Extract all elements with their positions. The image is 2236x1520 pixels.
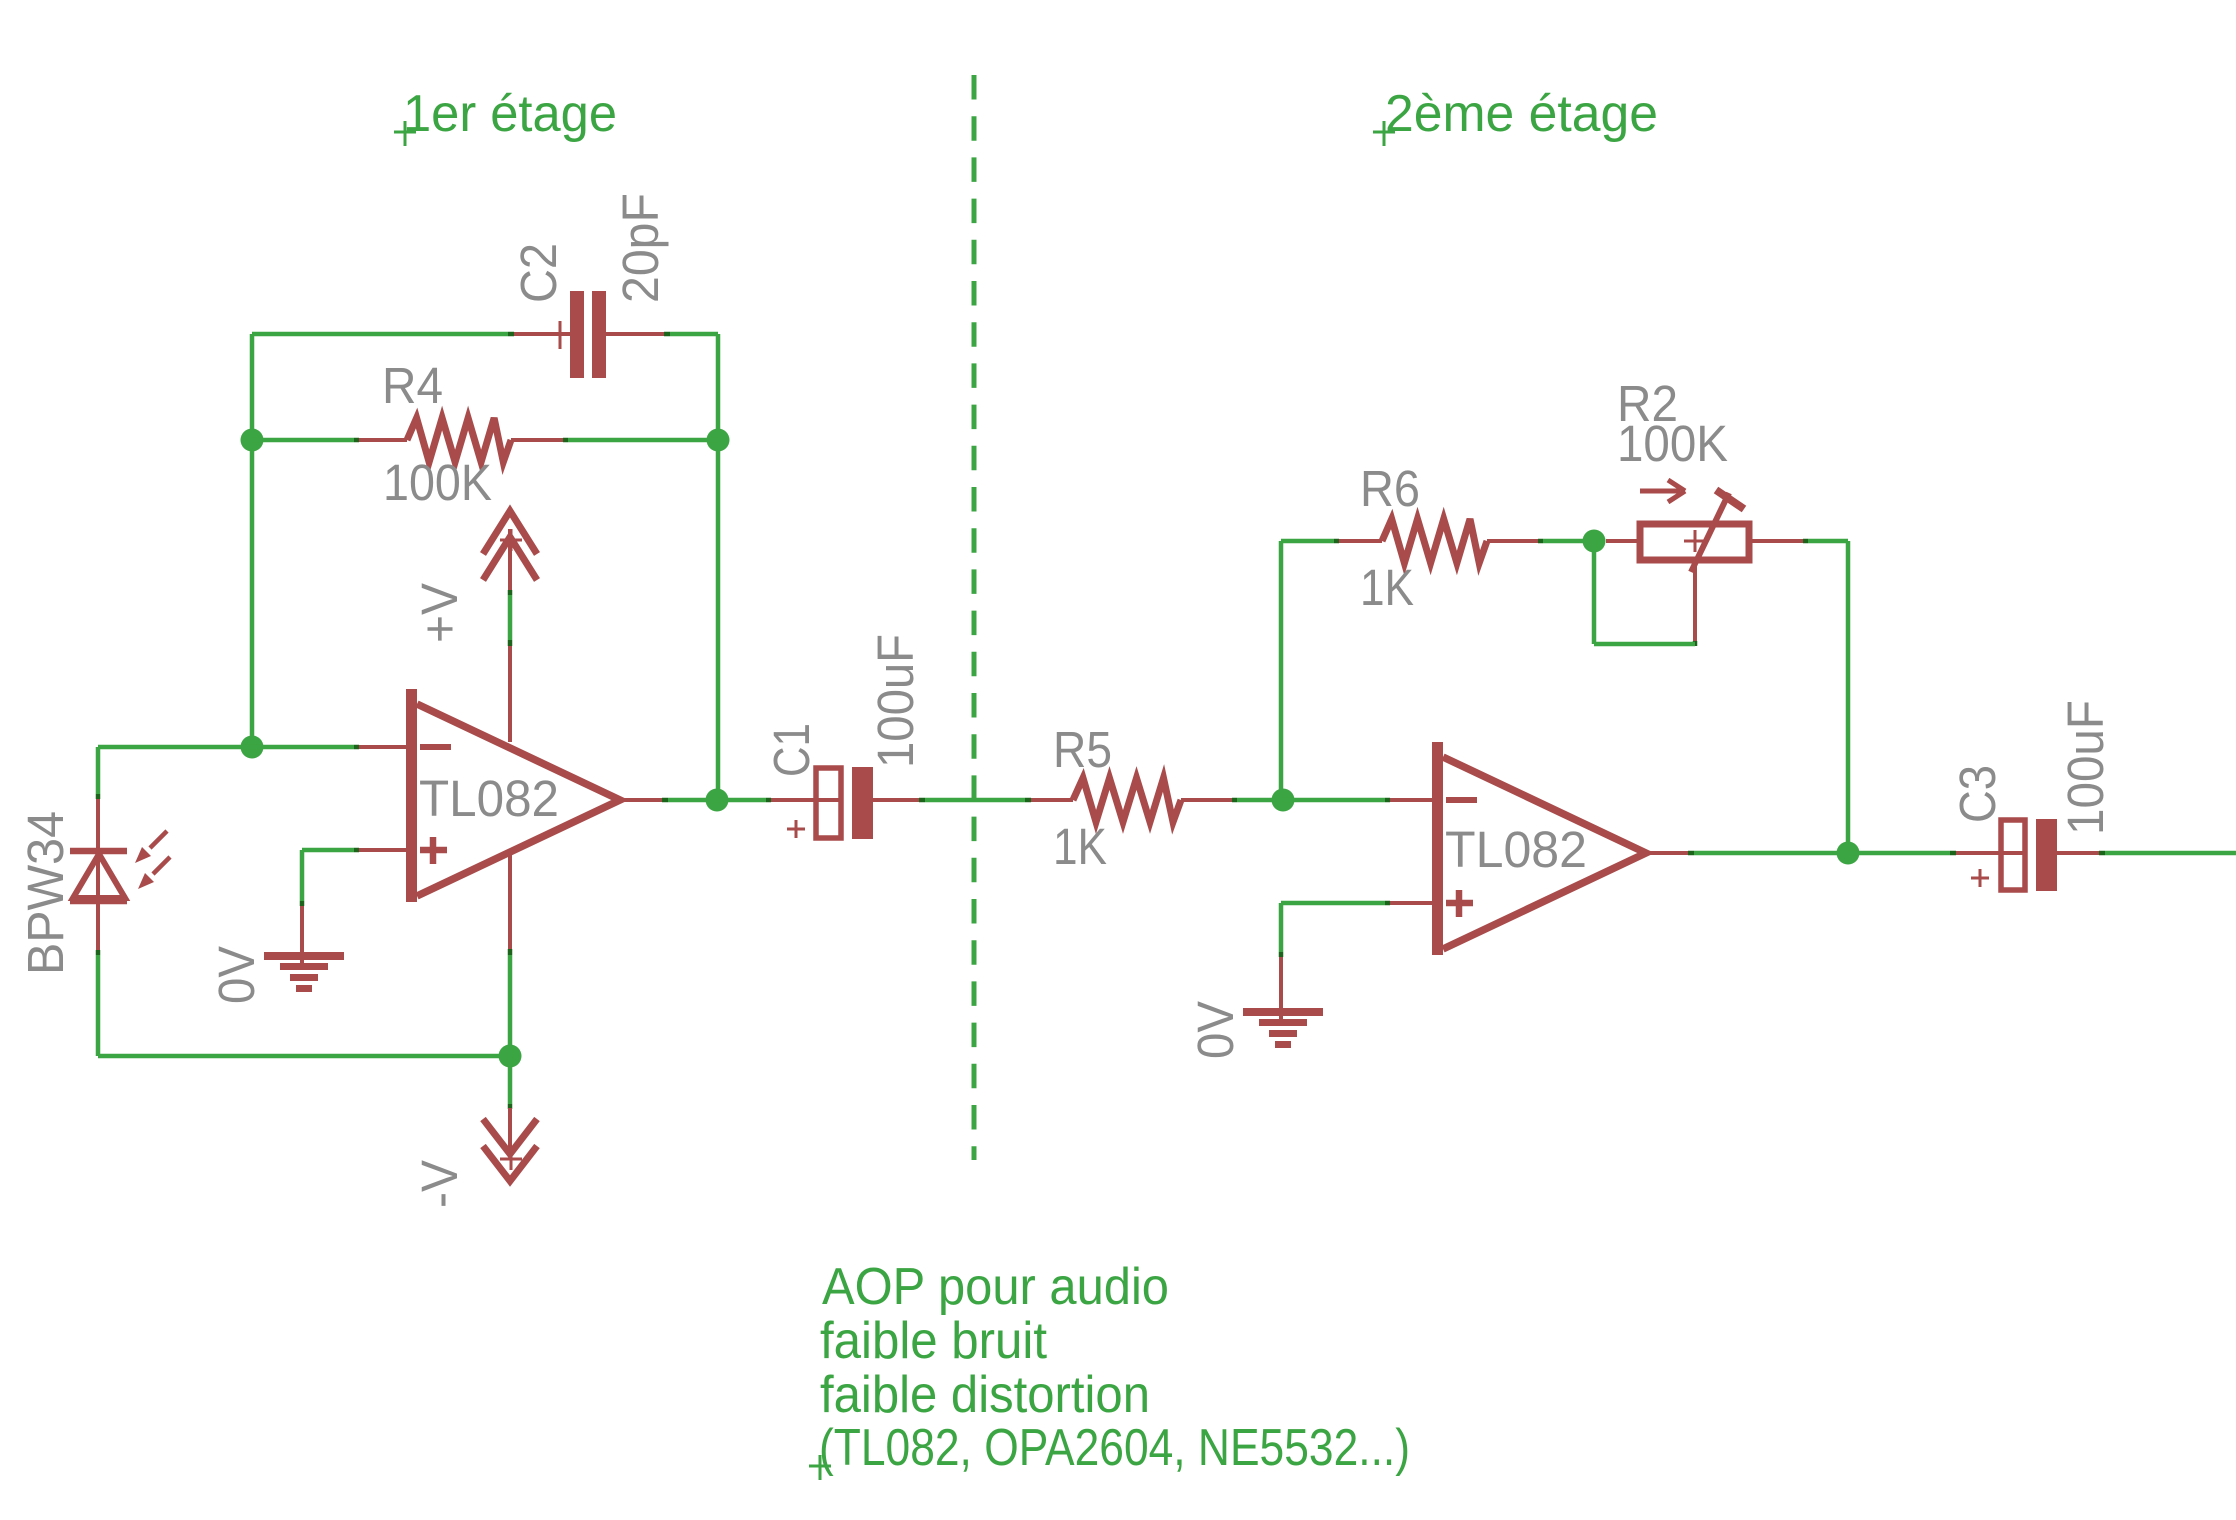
svg-text:2ème étage: 2ème étage <box>1385 85 1658 143</box>
node annotation text block <box>809 1258 1410 1480</box>
capacitor C2 <box>552 291 606 378</box>
node junction op1 output <box>620 789 729 812</box>
wire feedback left rail <box>250 334 255 747</box>
svg-text:R4: R4 <box>382 357 443 414</box>
wire dashed stage separator <box>972 75 977 1160</box>
wire pot right to feedback rail <box>1749 541 1848 853</box>
wire feedback top left segment <box>252 332 570 337</box>
resistor R4 <box>407 418 511 462</box>
wire R6 to pot junction <box>1487 539 1594 543</box>
wire rail to R6 <box>1281 541 1382 800</box>
wire op1 output to C1 <box>717 798 841 803</box>
svg-text:-V: -V <box>411 1160 468 1208</box>
node junction right R4 <box>707 429 730 452</box>
svg-text:0V: 0V <box>1187 1001 1244 1059</box>
node junction op2 output <box>1837 842 1860 865</box>
svg-text:R5: R5 <box>1053 721 1112 778</box>
op-amp U1 TL082 <box>406 689 620 902</box>
svg-text:100uF: 100uF <box>2057 700 2114 835</box>
ground 0V stage1 <box>264 906 344 992</box>
svg-text:100uF: 100uF <box>867 634 924 768</box>
wire inverting input op1 <box>252 745 407 750</box>
wire pot wiper loop <box>1594 541 1695 646</box>
svg-text:faible distortion: faible distortion <box>820 1366 1150 1424</box>
wire junction to C3 <box>1848 851 2024 856</box>
svg-text:TL082: TL082 <box>419 770 559 827</box>
node junction R5 output <box>1272 789 1295 812</box>
wire photodiode bottom <box>98 901 510 1056</box>
wire feedback right rail <box>716 334 721 800</box>
node junction left R4 <box>241 429 264 452</box>
resistor R6 <box>1382 519 1487 563</box>
node junction photodiode top <box>241 736 264 759</box>
svg-text:C2: C2 <box>510 243 567 303</box>
node 1er etage title <box>394 85 617 146</box>
node junction -V <box>499 1045 522 1068</box>
svg-text:TL082: TL082 <box>1445 821 1587 878</box>
node junction R6 pot <box>1583 530 1606 553</box>
svg-text:BPW34: BPW34 <box>17 811 74 975</box>
svg-text:1er étage: 1er étage <box>403 85 617 143</box>
svg-text:100K: 100K <box>383 454 492 511</box>
wire R5 to junction <box>1181 798 1283 802</box>
ground 0V stage2 <box>1243 957 1323 1048</box>
svg-text:1K: 1K <box>1360 559 1414 616</box>
wire op2 output <box>1646 851 1848 855</box>
svg-text:C3: C3 <box>1949 765 2006 823</box>
svg-text:+V: +V <box>411 583 468 643</box>
photodiode BPW34 <box>70 831 170 901</box>
svg-text:faible bruit: faible bruit <box>820 1312 1048 1370</box>
power +V supply <box>483 511 537 742</box>
svg-text:AOP pour audio: AOP pour audio <box>822 1258 1169 1316</box>
svg-text:0V: 0V <box>208 946 265 1004</box>
capacitor C3 <box>1971 819 2057 891</box>
svg-text:1K: 1K <box>1053 818 1107 875</box>
wire inverting input op2 <box>1283 798 1433 803</box>
svg-text:R6: R6 <box>1360 460 1420 517</box>
wire non-inverting input op1 <box>302 850 407 906</box>
capacitor C1 <box>787 767 873 839</box>
wire C3 to output edge <box>2057 851 2236 855</box>
svg-text:C1: C1 <box>763 723 820 777</box>
wire R4 row left <box>252 438 407 443</box>
op-amp U2 TL082 <box>1432 742 1646 955</box>
wire non-inverting input op2 <box>1281 903 1433 957</box>
resistor R5 <box>1073 778 1181 822</box>
svg-text:20pF: 20pF <box>612 193 669 303</box>
wire photodiode top <box>98 747 252 850</box>
wire feedback top right segment <box>606 332 718 336</box>
svg-text:100K: 100K <box>1617 415 1728 472</box>
potentiometer R2 <box>1606 480 1749 572</box>
wire R4 row right <box>511 438 718 442</box>
power -V supply <box>483 850 537 1181</box>
wire C1 to R5 <box>873 798 1073 802</box>
svg-text:(TL082, OPA2604, NE5532...): (TL082, OPA2604, NE5532...) <box>819 1419 1410 1477</box>
node 2eme etage title <box>1373 85 1658 146</box>
